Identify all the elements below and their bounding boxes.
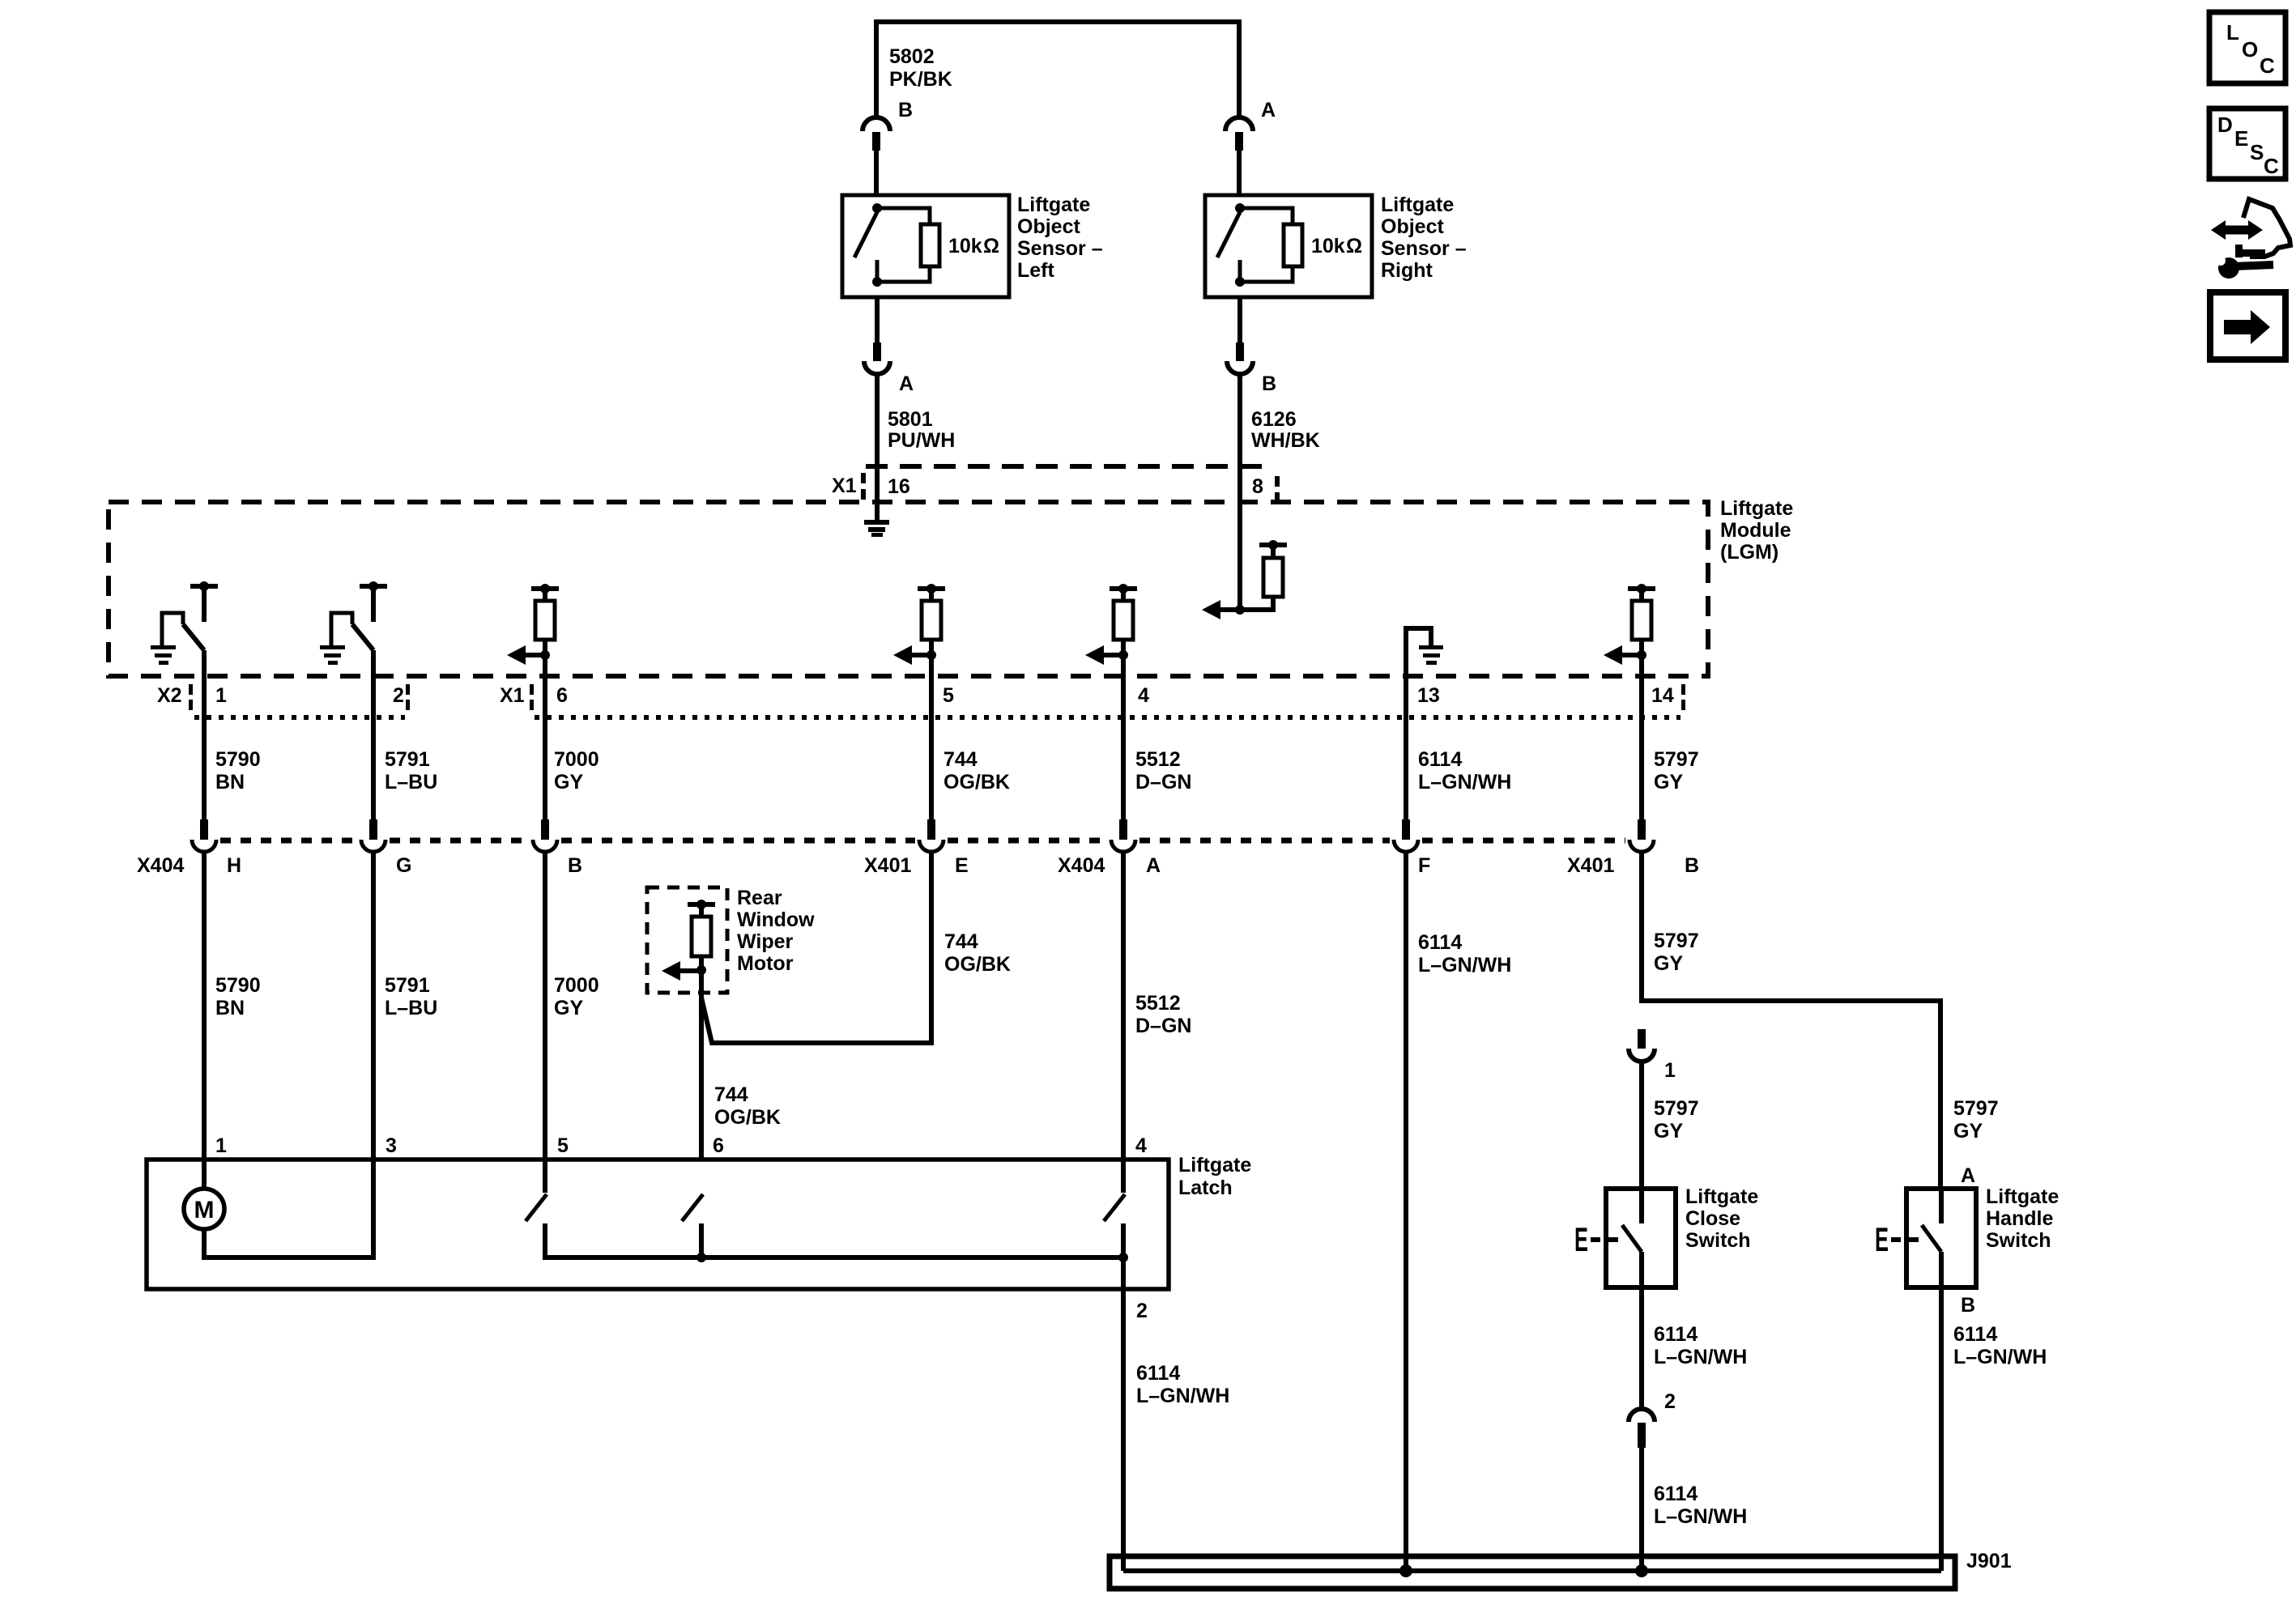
wire 5797 GY from X401-B to switches (1642, 853, 1940, 1189)
node dots right sensor (1235, 203, 1245, 213)
svg-text:14: 14 (1651, 684, 1674, 707)
svg-text:5512: 5512 (1135, 992, 1181, 1015)
svg-text:Right: Right (1381, 259, 1433, 282)
svg-text:6114: 6114 (1953, 1323, 1997, 1346)
wire 6126 below right sensor (1237, 297, 1242, 343)
X1 harness connector row (top) (866, 464, 1274, 469)
ground (320, 645, 345, 649)
wire below close switch (1639, 1287, 1644, 1409)
svg-text:GY: GY (1953, 1120, 1983, 1143)
wire 5801 to X1-16 (875, 374, 880, 521)
svg-text:M: M (194, 1197, 215, 1223)
latch switch pin 6 (682, 1194, 703, 1221)
svg-text:L–GN/WH: L–GN/WH (1418, 954, 1511, 977)
svg-text:GY: GY (554, 997, 583, 1019)
latch switch pin 4 (1121, 1160, 1126, 1193)
svg-text:7000: 7000 (554, 974, 599, 997)
icon DESC box (2209, 109, 2285, 179)
resistor 10k left (877, 208, 930, 224)
svg-text:C: C (2264, 154, 2279, 178)
svg-text:OG/BK: OG/BK (944, 771, 1010, 794)
svg-text:X401: X401 (1567, 854, 1614, 877)
svg-text:13: 13 (1417, 684, 1440, 707)
svg-text:D: D (2217, 113, 2233, 137)
Liftgate Module (LGM) dashed box (109, 502, 1708, 676)
connector terminal at x=1736 (1402, 819, 1410, 840)
svg-text:5: 5 (943, 684, 954, 707)
svg-text:GY: GY (554, 771, 583, 794)
svg-text:Close: Close (1685, 1207, 1740, 1230)
svg-text:Module: Module (1720, 519, 1791, 542)
svg-text:10k: 10k (948, 235, 982, 257)
module internal resistor output (pin wire x=1387) (1110, 586, 1137, 591)
svg-text:5797: 5797 (1953, 1097, 1999, 1120)
svg-text:L–GN/WH: L–GN/WH (1418, 771, 1511, 794)
svg-text:A: A (1146, 854, 1161, 877)
inline connector 1 on 5797 (1638, 1029, 1646, 1049)
svg-text:Wiper: Wiper (737, 930, 793, 953)
svg-text:5790: 5790 (215, 974, 261, 997)
wire 5801 below left sensor (875, 297, 880, 343)
module internal ground on pin 13 (1406, 628, 1431, 645)
module internal resistor output (pin wire x=2027) (1628, 586, 1655, 591)
splice pack J901 (1110, 1556, 1955, 1589)
connector pin B (left sensor) (863, 117, 890, 131)
svg-text:6114: 6114 (1136, 1362, 1180, 1385)
connector pin B (lower right) (1236, 343, 1244, 361)
icon hand with double arrow and wrench (2226, 226, 2248, 235)
wire 7000 GY to latch pin 5 (543, 853, 547, 1160)
svg-text:5512: 5512 (1135, 748, 1181, 771)
svg-text:B: B (568, 854, 582, 877)
icon LOC box (2209, 12, 2285, 83)
svg-text:J901: J901 (1966, 1550, 2012, 1572)
svg-text:GY: GY (1654, 1120, 1683, 1143)
svg-text:5797: 5797 (1654, 748, 1699, 771)
svg-text:H: H (227, 854, 241, 877)
svg-text:B: B (898, 99, 913, 121)
svg-text:F: F (1418, 854, 1430, 877)
svg-text:6126: 6126 (1251, 408, 1297, 431)
inline connector 2 (1629, 1409, 1655, 1422)
svg-text:2: 2 (1664, 1390, 1676, 1413)
svg-text:B: B (1961, 1294, 1975, 1317)
svg-text:5: 5 (557, 1134, 569, 1157)
svg-text:Left: Left (1017, 259, 1055, 282)
svg-text:6: 6 (713, 1134, 724, 1157)
connector terminal at x=673 (541, 819, 549, 840)
wire 6126 down to module (1237, 374, 1242, 610)
svg-text:B: B (1262, 372, 1276, 395)
svg-text:Object: Object (1017, 215, 1080, 238)
switch inside left sensor (854, 212, 877, 257)
svg-text:E: E (2234, 126, 2248, 151)
svg-text:O: O (2242, 37, 2258, 62)
svg-text:E: E (1574, 1220, 1588, 1258)
svg-text:L: L (2226, 20, 2239, 45)
svg-text:Ω: Ω (983, 235, 999, 257)
svg-text:5801: 5801 (888, 408, 933, 431)
svg-text:X404: X404 (137, 854, 184, 877)
svg-text:5797: 5797 (1654, 930, 1699, 952)
svg-text:Liftgate: Liftgate (1178, 1154, 1251, 1177)
icon arrow box (2210, 292, 2285, 360)
svg-text:G: G (396, 854, 411, 877)
svg-text:WH/BK: WH/BK (1251, 429, 1320, 452)
module internal resistor on pin 8 branch (1235, 605, 1245, 615)
Liftgate Handle Switch box (1906, 1189, 1976, 1287)
svg-text:16: 16 (888, 475, 910, 498)
wire below handle switch (1939, 1287, 1944, 1571)
svg-text:Switch: Switch (1986, 1229, 2051, 1252)
svg-text:L–GN/WH: L–GN/WH (1953, 1346, 2047, 1368)
svg-text:2: 2 (393, 684, 404, 707)
svg-text:1: 1 (215, 1134, 227, 1157)
svg-text:PU/WH: PU/WH (888, 429, 955, 452)
svg-text:5791: 5791 (385, 974, 430, 997)
X2 / X1 module connector row (189, 684, 193, 695)
wiper motor wire to latch pin 6 (699, 970, 704, 1160)
wire into left sensor (874, 151, 879, 195)
svg-text:Liftgate: Liftgate (1381, 194, 1454, 216)
svg-text:744: 744 (714, 1083, 748, 1106)
svg-text:2: 2 (1136, 1300, 1148, 1322)
dashed links between connectors (220, 838, 357, 844)
svg-text:7000: 7000 (554, 748, 599, 771)
svg-text:5790: 5790 (215, 748, 261, 771)
connector terminal at x=252 (200, 819, 208, 840)
connector terminal at x=2027 (1638, 819, 1646, 840)
svg-text:Motor: Motor (737, 952, 794, 975)
svg-text:5802: 5802 (889, 45, 935, 68)
wire 5512 D-GN to latch pin 4 (1121, 853, 1126, 1160)
Rear Window Wiper Motor dashed box (647, 887, 727, 993)
svg-text:Liftgate: Liftgate (1017, 194, 1090, 216)
svg-text:8: 8 (1252, 475, 1263, 498)
svg-text:Latch: Latch (1178, 1177, 1233, 1199)
svg-text:A: A (1961, 1164, 1975, 1187)
svg-text:Object: Object (1381, 215, 1444, 238)
svg-text:6114: 6114 (1654, 1483, 1698, 1505)
latch pin 2 wire to J901 (1121, 1257, 1126, 1571)
svg-text:X1: X1 (500, 684, 525, 707)
svg-text:Switch: Switch (1685, 1229, 1751, 1252)
svg-text:6114: 6114 (1418, 748, 1462, 771)
ground at X1-16 inside module (864, 520, 889, 525)
connector terminal at x=1150 (927, 819, 935, 840)
svg-text:Liftgate: Liftgate (1720, 497, 1793, 520)
svg-text:PK/BK: PK/BK (889, 68, 952, 91)
svg-text:Sensor –: Sensor – (1381, 237, 1467, 260)
wire into right sensor (1237, 151, 1242, 195)
svg-text:X401: X401 (864, 854, 911, 877)
svg-text:BN: BN (215, 771, 245, 794)
svg-text:L–GN/WH: L–GN/WH (1654, 1505, 1747, 1528)
svg-text:X1: X1 (832, 474, 857, 497)
svg-text:X2: X2 (157, 684, 182, 707)
module internal resistor output (pin wire x=673) (531, 586, 559, 591)
module internal resistor output (pin wire x=1150) (918, 586, 945, 591)
wire 5791 L-BU to latch pin 3 (371, 853, 376, 1160)
svg-text:1: 1 (215, 684, 227, 707)
connector pin A (lower left) (873, 343, 881, 361)
connector terminal at x=461 (369, 819, 377, 840)
svg-text:4: 4 (1138, 684, 1149, 707)
svg-text:Sensor –: Sensor – (1017, 237, 1103, 260)
svg-text:6114: 6114 (1418, 931, 1462, 954)
wire 5790 BN to latch pin 1 (202, 853, 207, 1160)
svg-text:5791: 5791 (385, 748, 430, 771)
svg-text:GY: GY (1654, 952, 1683, 975)
svg-text:Ω: Ω (1346, 235, 1362, 257)
svg-text:Rear: Rear (737, 887, 782, 909)
svg-text:L–BU: L–BU (385, 997, 437, 1019)
node dots left sensor (872, 203, 882, 213)
svg-text:E: E (1875, 1220, 1889, 1258)
svg-text:OG/BK: OG/BK (714, 1106, 781, 1129)
svg-text:L–GN/WH: L–GN/WH (1654, 1346, 1747, 1368)
wiper motor resistor (688, 902, 715, 907)
svg-text:6: 6 (556, 684, 568, 707)
wire to close switch (1639, 1062, 1644, 1189)
svg-text:D–GN: D–GN (1135, 1015, 1191, 1037)
svg-text:Liftgate: Liftgate (1685, 1185, 1758, 1208)
module internal switch to ground (pin wire x=461) (360, 584, 387, 589)
svg-text:GY: GY (1654, 771, 1683, 794)
latch switch pin 5 (543, 1160, 547, 1193)
Liftgate Object Sensor Right box (1205, 195, 1372, 297)
Liftgate Latch box (147, 1160, 1169, 1289)
svg-text:10k: 10k (1311, 235, 1345, 257)
connector pin A (right sensor) (1225, 117, 1253, 131)
wire to X2 pin 2 (371, 650, 376, 819)
ground (151, 645, 176, 649)
svg-text:A: A (1261, 99, 1276, 121)
svg-text:(LGM): (LGM) (1720, 541, 1778, 564)
svg-text:L–BU: L–BU (385, 771, 437, 794)
svg-text:BN: BN (215, 997, 245, 1019)
wire 6114 L-GN/WH from X404-F to J901 (1404, 853, 1408, 1571)
module internal switch to ground (pin wire x=252) (190, 584, 218, 589)
svg-text:5797: 5797 (1654, 1097, 1699, 1120)
resistor 10k right (1240, 208, 1293, 224)
svg-text:C: C (2260, 53, 2275, 78)
svg-text:OG/BK: OG/BK (944, 953, 1011, 976)
svg-text:3: 3 (386, 1134, 397, 1157)
svg-text:744: 744 (944, 930, 978, 953)
switch inside right sensor (1217, 212, 1240, 257)
svg-text:Handle: Handle (1986, 1207, 2053, 1230)
svg-text:L–GN/WH: L–GN/WH (1136, 1385, 1229, 1407)
svg-text:Window: Window (737, 908, 815, 931)
wire 5802 PK/BK top loop (876, 22, 1239, 117)
svg-text:E: E (955, 854, 969, 877)
Liftgate Object Sensor Left box (842, 195, 1009, 297)
svg-text:744: 744 (944, 748, 978, 771)
motor M in latch (184, 1189, 224, 1229)
wire 744 OG/BK from X401-E to wiper junction (701, 853, 931, 1043)
wire to X2 pin 1 (202, 650, 207, 819)
svg-text:A: A (899, 372, 914, 395)
Liftgate Close Switch box (1606, 1189, 1676, 1287)
connector terminal at x=1387 (1119, 819, 1127, 840)
svg-text:Liftgate: Liftgate (1986, 1185, 2059, 1208)
svg-text:6114: 6114 (1654, 1323, 1698, 1346)
svg-text:X404: X404 (1058, 854, 1105, 877)
svg-text:1: 1 (1664, 1059, 1676, 1082)
latch internal bus (545, 1255, 1123, 1260)
svg-text:4: 4 (1135, 1134, 1147, 1157)
svg-text:D–GN: D–GN (1135, 771, 1191, 794)
svg-text:B: B (1685, 854, 1699, 877)
svg-text:S: S (2250, 140, 2264, 164)
